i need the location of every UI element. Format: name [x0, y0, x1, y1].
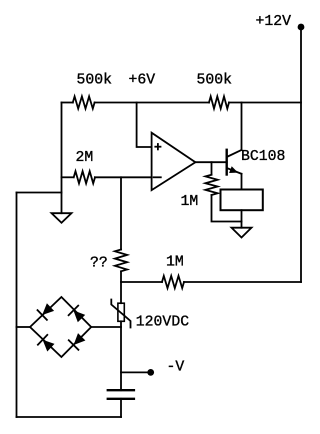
svg-text:-V: -V: [167, 360, 185, 376]
wire middle branch down from - input: [120, 177, 122, 249]
transistor Q1 BC108: [225, 150, 227, 175]
wire varistor to bridge junction and down to capacitor: [120, 321, 122, 390]
svg-text:1M: 1M: [166, 255, 184, 271]
diode D2 top-right: [73, 310, 85, 322]
relay coil K1: [221, 190, 263, 211]
svg-text:+12V: +12V: [256, 14, 292, 30]
wire bridge left stub: [17, 326, 31, 328]
wire left branch top horizontal: [17, 192, 62, 194]
diode D4 bottom-right: [74, 333, 86, 345]
wire left branch vertical: [16, 193, 18, 418]
svg-text:1M: 1M: [181, 194, 199, 210]
resistor R1 500k (left): [73, 96, 95, 108]
wire left vertical from top rail to ground: [61, 103, 63, 214]
ground (under relay): [232, 228, 252, 238]
diode D1 top-left: [42, 303, 54, 315]
resistor R5 ??: [115, 250, 127, 272]
wire +6V branch to op-amp + input: [137, 103, 152, 148]
varistor RV1 120VDC: [118, 303, 124, 321]
node +12V terminal: [298, 24, 305, 31]
svg-text:120VDC: 120VDC: [136, 315, 189, 331]
op-amp - mark: [154, 176, 161, 178]
svg-text:+6V: +6V: [129, 73, 156, 89]
wire bridge right stub: [91, 326, 121, 328]
svg-text:500k: 500k: [77, 73, 113, 89]
svg-text:BC108: BC108: [241, 149, 285, 165]
wire bottom rail: [17, 416, 122, 418]
diode D3 bottom-left: [43, 340, 55, 352]
svg-text:500k: 500k: [197, 73, 233, 89]
op-amp + mark: [154, 146, 161, 148]
resistor R6 1M (horizontal): [121, 281, 162, 283]
wire ?? to varistor: [120, 271, 122, 303]
wire capacitor bottom to bottom rail: [120, 399, 122, 417]
wire 2M left to left vertical: [62, 176, 74, 178]
op-amp U1: [152, 133, 196, 190]
wire 2M right to op-amp - input: [95, 176, 152, 178]
wire op-amp output to transistor base: [195, 161, 226, 163]
resistor R2 500k (right): [209, 96, 229, 108]
svg-text:??: ??: [90, 255, 108, 271]
svg-text:2M: 2M: [76, 150, 94, 166]
resistor R4 1M (vertical at op-amp output): [211, 162, 213, 175]
bridge frame: [30, 297, 91, 357]
resistor R3 2M: [74, 171, 95, 183]
wire top rail: [62, 102, 73, 104]
ground (left): [52, 213, 72, 223]
node -V tap: [121, 371, 148, 373]
capacitor C1: [108, 389, 134, 391]
wire right vertical from +12V down to 1M wire: [300, 27, 302, 282]
wire relay to ground: [241, 210, 243, 228]
